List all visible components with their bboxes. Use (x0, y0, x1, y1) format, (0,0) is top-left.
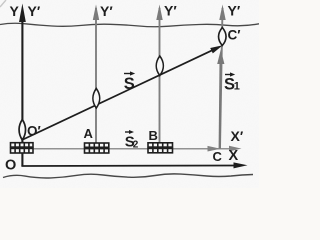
raft at O' (11, 143, 34, 153)
raft at A (85, 143, 109, 153)
wavy river bank top (0, 23, 259, 27)
vector S1 arrow (gray, vertical at C) (219, 60, 222, 148)
raft at B (148, 143, 173, 153)
boat at B position (156, 56, 163, 76)
boat at C' (219, 28, 226, 46)
boat at A position (93, 89, 100, 109)
X axis arrowhead (234, 162, 248, 168)
arrowhead at X' end (229, 146, 242, 152)
boat at O' (19, 120, 25, 141)
corner smudge top-left (0, 0, 6, 7)
arrow over S2 (125, 131, 131, 133)
arrowhead on X' at C (208, 146, 221, 152)
arrow over S (124, 73, 132, 75)
arrowhead Y' 4 (219, 5, 225, 21)
X' axis (gray) (12, 148, 231, 150)
Y axis (black, thick) (21, 18, 23, 166)
Y axis arrowhead (19, 4, 26, 23)
paper noise (0, 0, 1, 1)
wavy river bank bottom (3, 174, 253, 178)
diagonal arrowhead (210, 45, 223, 53)
Y' axis line 2 (through A) (95, 8, 97, 149)
arrowhead Y' 2 (93, 5, 99, 21)
Y' axis line 4 (through C) (220, 8, 223, 149)
X axis (black) (21, 165, 236, 168)
arrow over S1 (225, 74, 232, 76)
arrowhead Y' 3 (156, 5, 162, 21)
Y' axis line 3 (through B) (159, 8, 161, 149)
displacement vector S (diagonal O' to C') (23, 50, 214, 140)
